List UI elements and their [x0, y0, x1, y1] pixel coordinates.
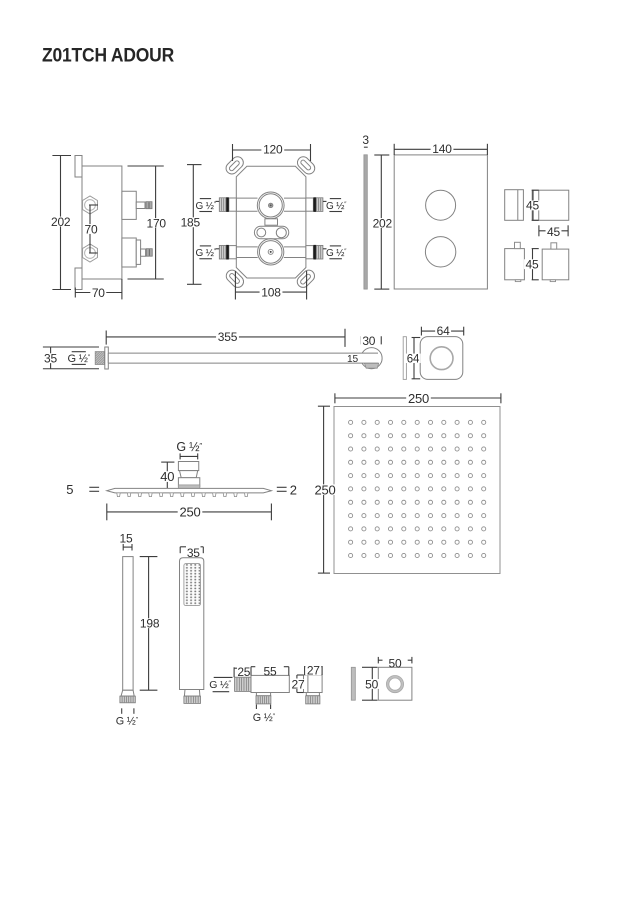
- head side connector stack: [178, 462, 198, 471]
- handle 1 side view: [505, 190, 524, 221]
- svg-text:G ½″: G ½″: [68, 353, 91, 365]
- dimension 140: [393, 144, 395, 155]
- valve front: upper cartridge circle: [257, 192, 284, 219]
- dimension 45 handle 2 height: [532, 248, 539, 250]
- svg-text:50: 50: [365, 677, 378, 691]
- svg-text:G ½″: G ½″: [326, 248, 347, 259]
- svg-text:185: 185: [181, 216, 201, 230]
- elbow outlet front neck: [306, 693, 319, 696]
- valve side view: wall plate bottom tab: [75, 268, 82, 290]
- valve side view: hex nut upper: [83, 196, 98, 214]
- dimension 35 arm flange: [43, 346, 99, 348]
- dimension 120 top: [232, 144, 234, 161]
- svg-text:G ½″: G ½″: [209, 679, 231, 691]
- valve front: lower cartridge circle: [258, 239, 284, 265]
- trim plate knob hole lower: [425, 237, 455, 267]
- valve front: body octagon: [236, 166, 306, 278]
- trim plate front 140x202: [394, 155, 487, 289]
- svg-text:G ½″: G ½″: [326, 201, 347, 212]
- valve front: inlet connector upper-left: [229, 198, 237, 211]
- dimension 50 left: [362, 666, 378, 668]
- svg-text:250: 250: [408, 391, 429, 406]
- dimension 27 horizontal: [304, 666, 306, 675]
- wand spray face: [184, 564, 201, 606]
- dimension 35 wand front: [180, 546, 186, 548]
- valve side view: lower thread: [146, 249, 152, 257]
- outlet escutcheon hole ring: [388, 677, 403, 692]
- trim plate side view: [364, 155, 367, 289]
- wand front body: [180, 558, 204, 690]
- arm escutcheon side plate: [403, 337, 406, 380]
- valve front: upper pipe: [236, 197, 257, 199]
- wand side tip: [121, 690, 134, 696]
- elbow outlet thread: [256, 696, 271, 704]
- svg-text:40: 40: [160, 469, 174, 484]
- svg-text:2: 2: [290, 483, 297, 498]
- dimension 250 head top: [334, 393, 336, 403]
- svg-text:250: 250: [314, 482, 335, 497]
- valve front: inlet connector lower-left: [229, 246, 237, 259]
- valve side view: hex nut lower: [83, 244, 98, 262]
- svg-text:70: 70: [85, 222, 98, 236]
- handle 1 front view: [532, 190, 569, 220]
- svg-text:120: 120: [263, 143, 283, 157]
- svg-text:27: 27: [307, 664, 320, 678]
- svg-text:355: 355: [218, 330, 238, 344]
- arm escutcheon front 64x64: [420, 337, 463, 380]
- valve front: ear top-right: [295, 154, 317, 176]
- label G1/2 upper-left: [200, 198, 211, 200]
- dimension 40: [161, 461, 174, 463]
- svg-text:64: 64: [407, 353, 420, 365]
- svg-text:G ½″: G ½″: [253, 712, 276, 724]
- svg-text:64: 64: [437, 324, 450, 338]
- valve side view: lower cartridge: [122, 238, 136, 267]
- svg-text:45: 45: [526, 257, 539, 271]
- elbow body: [251, 675, 289, 692]
- svg-text:5: 5: [66, 482, 73, 497]
- dimension 250 head side: [106, 504, 108, 521]
- svg-text:108: 108: [261, 286, 281, 300]
- dimension 25: [233, 667, 235, 677]
- svg-text:G ½″: G ½″: [116, 715, 139, 727]
- dimension 70 hex spacing: [89, 204, 98, 206]
- svg-text:35: 35: [44, 351, 57, 365]
- dimension 15 wand: [122, 544, 124, 551]
- shower arm tube: [108, 353, 378, 363]
- valve front: ear bottom-left: [224, 268, 246, 290]
- svg-text:3: 3: [362, 133, 369, 147]
- label G1/2 leader upper-left: [216, 200, 220, 202]
- svg-text:G ½″: G ½″: [176, 440, 202, 454]
- dimension 355: [105, 331, 107, 345]
- valve front: inlet connector lower-right: [306, 246, 314, 259]
- valve side view: upper cartridge: [122, 191, 136, 219]
- dimension 202 left: [52, 155, 71, 157]
- svg-text:30: 30: [362, 334, 375, 348]
- svg-text:G ½″: G ½″: [196, 248, 217, 259]
- trim plate knob hole upper: [426, 190, 456, 220]
- dimension 108 bottom: [234, 271, 236, 300]
- dimension 45 handle height top: [532, 189, 539, 191]
- label G1/2 leader lower-right: [323, 248, 327, 250]
- valve side view: lower cartridge ring: [136, 240, 140, 264]
- shower arm ball end: [361, 348, 382, 369]
- valve side view: wall plate top tab: [75, 156, 82, 178]
- dimension 30 ball: [360, 336, 362, 344]
- svg-text:25: 25: [237, 665, 250, 679]
- svg-text:15: 15: [120, 531, 133, 545]
- valve front: inlet connector upper-right: [306, 198, 314, 211]
- dimension 64 top: [420, 327, 422, 336]
- dimension 27 vertical: [297, 674, 304, 676]
- valve front: lower pipe: [236, 246, 257, 248]
- dimension 55: [250, 667, 252, 676]
- svg-text:G ½″: G ½″: [196, 201, 217, 212]
- outlet escutcheon side plate: [351, 667, 355, 700]
- dimension 50 top: [377, 657, 379, 664]
- valve front: neck: [265, 219, 278, 225]
- dimension 250 head left: [318, 405, 330, 407]
- svg-text:Z01TCH ADOUR: Z01TCH ADOUR: [42, 45, 174, 67]
- dimension 185 left: [187, 164, 202, 166]
- wand front tip: [184, 690, 200, 697]
- svg-text:45: 45: [526, 199, 539, 213]
- svg-text:15: 15: [347, 354, 358, 365]
- label G1/2 lower-left: [200, 245, 211, 247]
- arm escutcheon hole: [430, 347, 453, 370]
- elbow outlet neck: [256, 693, 270, 696]
- dimension 70 bottom: [74, 288, 76, 298]
- elbow inlet thread: [235, 677, 251, 691]
- svg-text:140: 140: [432, 142, 452, 156]
- shower arm G1/2 label: [72, 351, 86, 353]
- shower arm wall flange: [105, 347, 109, 369]
- elbow outlet G1/2 label: [255, 705, 257, 710]
- svg-text:45: 45: [547, 225, 560, 239]
- valve side view: upper nipple: [136, 202, 145, 209]
- label G1/2 lower-right: [330, 245, 341, 247]
- valve side view: lower nipple: [141, 249, 146, 256]
- elbow outlet front square: [304, 675, 323, 693]
- dimension 45 handle width: [538, 225, 540, 236]
- svg-text:70: 70: [92, 286, 105, 300]
- svg-text:27: 27: [292, 677, 305, 691]
- shower head nozzle grid: [349, 420, 486, 557]
- handle 2 front view: [542, 249, 569, 280]
- elbow G1/2 inlet label: [214, 676, 233, 678]
- svg-text:170: 170: [146, 216, 166, 230]
- svg-text:55: 55: [264, 664, 277, 678]
- valve front: ear top-left: [224, 154, 246, 176]
- head side thread width dim: [179, 453, 181, 459]
- valve front: ear bottom-right: [295, 268, 317, 290]
- svg-text:35: 35: [187, 546, 200, 560]
- label G1/2 upper-right: [330, 198, 341, 200]
- svg-text:50: 50: [389, 656, 402, 670]
- label G1/2 leader upper-right: [323, 200, 327, 202]
- dimension 64 left: [412, 337, 421, 339]
- svg-text:202: 202: [373, 216, 393, 230]
- head side plate: [107, 488, 272, 493]
- svg-text:198: 198: [140, 616, 160, 630]
- dimension 198: [140, 556, 158, 558]
- wand G1/2 label: [121, 708, 123, 714]
- dimension 202 trim plate: [374, 154, 389, 156]
- wand side body: [123, 557, 133, 691]
- shower arm wall thread: [82, 352, 119, 365]
- valve side view: valve body: [82, 166, 122, 279]
- head side nozzles: [117, 493, 248, 497]
- label 2 plate edge: [277, 486, 287, 488]
- valve side view: upper thread: [146, 202, 152, 209]
- shower head front 250x250: [334, 407, 500, 574]
- svg-text:250: 250: [179, 505, 200, 520]
- svg-text:202: 202: [51, 215, 71, 229]
- outlet escutcheon front 50x50: [378, 667, 412, 700]
- handle 2 side view: [505, 249, 525, 280]
- dimension 170 right: [128, 165, 164, 167]
- label G1/2 leader lower-left: [216, 248, 220, 250]
- valve front: diverter waist: [254, 226, 288, 239]
